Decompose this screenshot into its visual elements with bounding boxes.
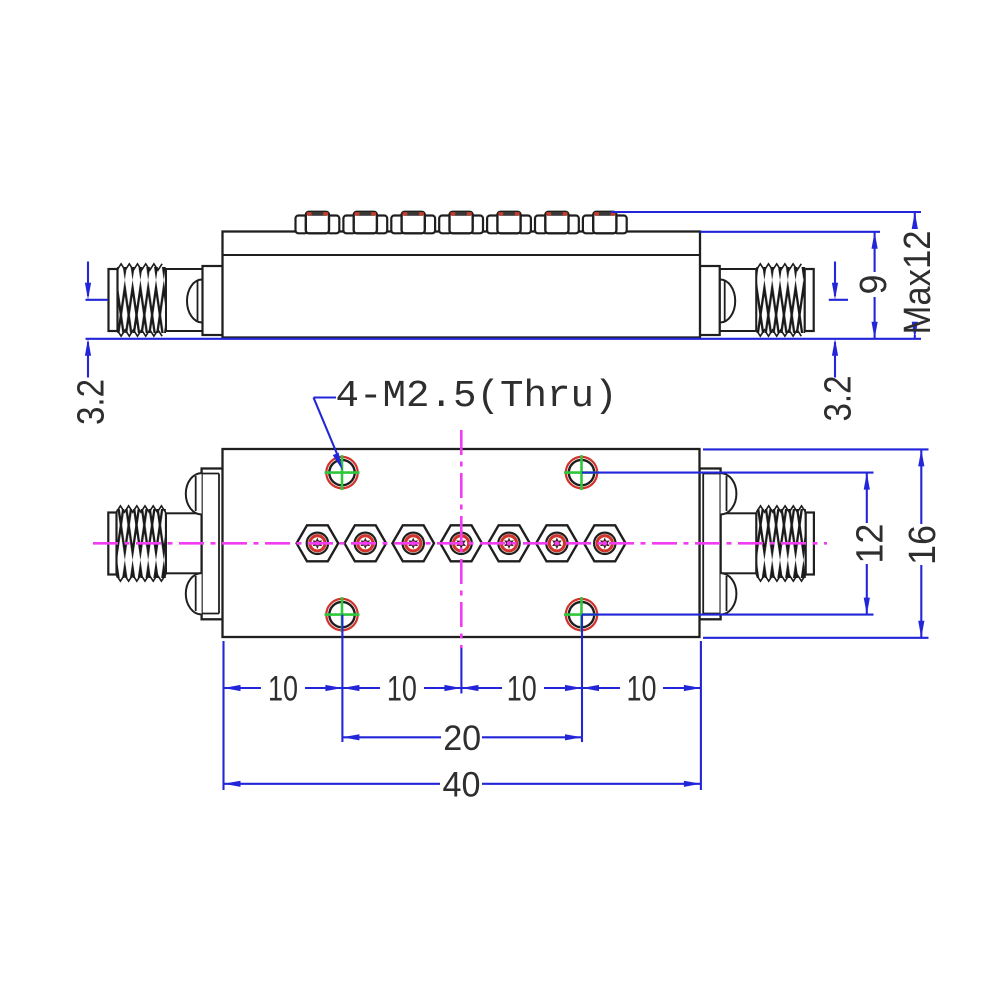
plan view right connector end cap bbox=[806, 513, 814, 575]
svg-text:3.2: 3.2 bbox=[71, 379, 113, 425]
right 3.2 dim upper arrow bbox=[834, 262, 836, 297]
left 3.2 dim upper arrow bbox=[87, 262, 89, 297]
plan view left connector threads bbox=[116, 506, 166, 581]
dim 16 vertical line bbox=[920, 449, 922, 524]
left 3.2 dim lower arrow bbox=[87, 342, 89, 378]
ext line from bottom-right hole bbox=[581, 615, 583, 742]
dim line 40 bbox=[224, 783, 441, 785]
side view right SMA flange bbox=[699, 266, 720, 335]
side view right SMA connector barrel bbox=[720, 269, 757, 331]
svg-text:Max12: Max12 bbox=[897, 231, 939, 335]
side view left SMA connector barrel bbox=[166, 269, 203, 331]
mounting hole M2.5 bottom-left bbox=[325, 597, 360, 632]
left 3.2 dim: center line tick bbox=[86, 299, 109, 301]
svg-text:3.2: 3.2 bbox=[818, 376, 860, 422]
dim 9 extension line bbox=[700, 231, 880, 233]
hex nut 2 on top (side view) bbox=[343, 212, 387, 234]
hex screw 3 (plan view) bbox=[392, 525, 434, 561]
plan view right connector threads bbox=[756, 506, 806, 581]
plan view left connector barrel bbox=[166, 513, 202, 573]
svg-text:10: 10 bbox=[627, 670, 657, 709]
svg-text:9: 9 bbox=[853, 275, 895, 295]
mounting hole M2.5 bottom-right bbox=[564, 597, 599, 632]
plan view right nut bottom arc bbox=[721, 573, 737, 614]
svg-text:16: 16 bbox=[902, 525, 944, 565]
side view left SMA connector end cap bbox=[109, 269, 118, 331]
side view right SMA connector end cap bbox=[805, 269, 814, 331]
plan view left nut top arc bbox=[186, 473, 202, 514]
right 3.2 dim: center line tick bbox=[829, 299, 848, 301]
ext line right body corner bbox=[700, 641, 702, 790]
magenta vertical centerline (plan) bbox=[460, 430, 463, 648]
hex nut 3 on top (side view) bbox=[391, 212, 435, 234]
device body rectangle (side view) bbox=[223, 232, 701, 338]
mounting hole M2.5 top-left bbox=[325, 455, 360, 490]
svg-text:10: 10 bbox=[268, 670, 298, 709]
hex screw 1 (plan view) bbox=[297, 525, 339, 561]
side view right SMA barrel arc bbox=[720, 280, 735, 323]
Max12 extension line (top of nuts) bbox=[611, 211, 921, 213]
hex screw 7 (plan view) bbox=[584, 525, 626, 561]
hex screw 2 (plan view) bbox=[345, 525, 387, 561]
side view left SMA barrel arc bbox=[187, 280, 202, 323]
dim 12 vertical line bbox=[866, 473, 868, 523]
mounting hole M2.5 top-right bbox=[564, 455, 599, 490]
Max12 dim vertical line bbox=[914, 212, 916, 228]
dim 9 vertical line bbox=[874, 232, 876, 272]
plan view left hex nut bbox=[202, 469, 223, 620]
side view right SMA connector threads bbox=[756, 264, 805, 336]
svg-text:12: 12 bbox=[850, 524, 892, 564]
ext line from bottom-left hole bbox=[341, 615, 343, 742]
svg-text:10: 10 bbox=[507, 670, 537, 709]
hex screw 6 (plan view) bbox=[536, 525, 578, 561]
side view left SMA connector threads bbox=[117, 264, 166, 336]
plan view right hex nut bbox=[700, 469, 721, 620]
hex screw 4 (plan view) bbox=[440, 525, 482, 561]
plan view left connector end cap bbox=[108, 513, 116, 575]
hex screw 5 (plan view) bbox=[488, 525, 530, 561]
bottom extension line (blue, full width) bbox=[86, 338, 922, 340]
svg-text:4-M2.5(Thru): 4-M2.5(Thru) bbox=[336, 375, 618, 418]
device body rectangle (plan view) bbox=[223, 449, 700, 637]
ext line left body corner bbox=[222, 641, 224, 790]
hex nut 6 on top (side view) bbox=[535, 212, 579, 234]
magenta horizontal centerline (plan) bbox=[93, 542, 827, 545]
right 3.2 dim lower arrow bbox=[834, 342, 836, 378]
leader line for 4-M2.5 bbox=[314, 396, 337, 398]
hex nut 7 on top (side view) bbox=[583, 212, 627, 234]
svg-text:20: 20 bbox=[443, 719, 481, 758]
dim 12 extension lines bbox=[582, 472, 874, 474]
svg-text:40: 40 bbox=[443, 766, 481, 805]
side view left SMA flange bbox=[203, 266, 224, 335]
dim line 20 bbox=[342, 736, 441, 738]
plan view left nut bottom arc bbox=[186, 573, 202, 614]
hex nut 1 on top (side view) bbox=[296, 212, 340, 234]
dim line 10/10/10/10 bbox=[224, 687, 262, 689]
hex nut 4 on top (side view) bbox=[439, 212, 483, 234]
hex nut 5 on top (side view) bbox=[487, 212, 531, 234]
plan view right nut top arc bbox=[721, 473, 737, 514]
dim 16 extension lines bbox=[703, 448, 929, 450]
ext line center bbox=[460, 648, 462, 694]
svg-text:10: 10 bbox=[387, 670, 417, 709]
body lid split line bbox=[223, 254, 701, 256]
plan view right connector barrel bbox=[721, 513, 757, 573]
